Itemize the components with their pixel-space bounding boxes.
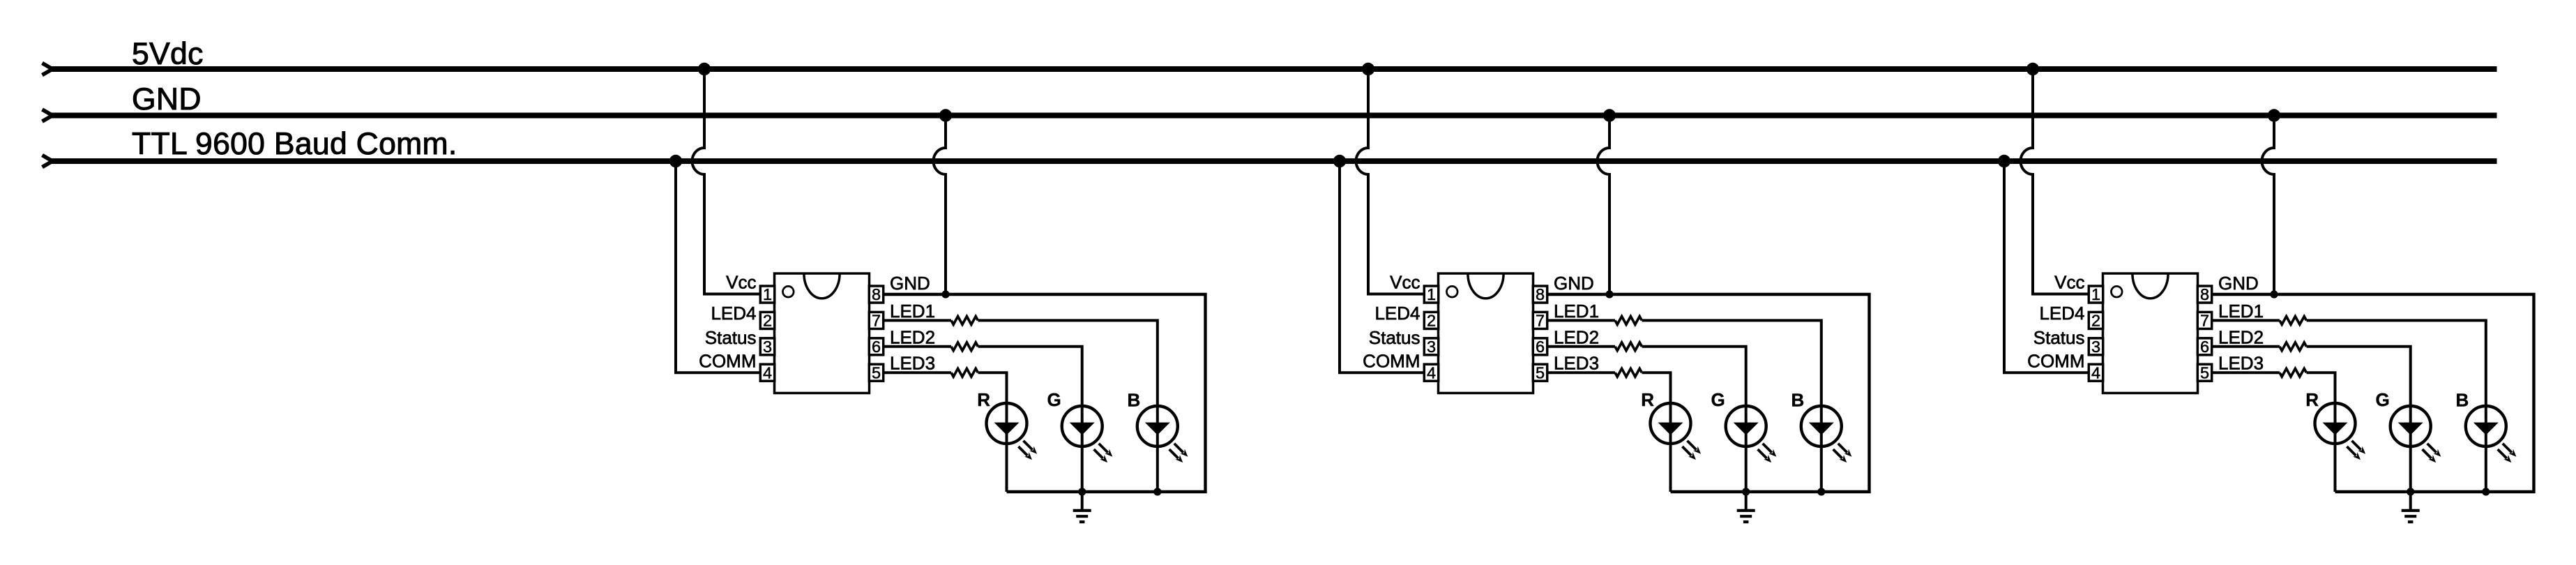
wire pin 5 LED3 (block 3) xyxy=(2212,371,2280,374)
svg-text:B: B xyxy=(1128,390,1141,411)
LED R (block 1) xyxy=(987,403,1038,460)
svg-text:R: R xyxy=(2305,389,2319,410)
svg-text:GND: GND xyxy=(2218,273,2259,294)
junction dot rail/LED B (block 1) xyxy=(1153,488,1161,495)
svg-text:R: R xyxy=(1641,389,1654,410)
bus wire TTL 9600 Baud Comm. xyxy=(51,158,2497,164)
resistor LED1 (block 3) xyxy=(2280,317,2306,325)
ground symbol (block 2) xyxy=(1737,492,1755,522)
wire TTL to COMM pin 4 (block 2) xyxy=(1340,161,1425,372)
svg-text:5: 5 xyxy=(2200,363,2209,382)
svg-text:7: 7 xyxy=(872,312,881,330)
svg-text:6: 6 xyxy=(872,338,881,356)
svg-text:LED1: LED1 xyxy=(890,301,935,322)
pin 2 box (block 3) xyxy=(2089,312,2103,330)
wire pin 8 GND net (block 2) xyxy=(1547,294,1870,492)
LED B (block 1) xyxy=(1137,406,1188,462)
LED R (block 3) xyxy=(2315,403,2366,460)
svg-text:5: 5 xyxy=(872,363,881,382)
IC microcontroller (block 1) body xyxy=(775,273,870,393)
wire 5Vdc to Vcc pin 1 (block 2) xyxy=(1356,69,1425,294)
svg-text:Status: Status xyxy=(705,327,757,348)
pin 4 box (block 1) xyxy=(760,363,774,382)
svg-text:Status: Status xyxy=(1369,327,1420,348)
LED B (block 2) xyxy=(1801,406,1852,462)
svg-text:8: 8 xyxy=(872,285,881,303)
bus wire GND xyxy=(51,113,2497,119)
LED G (block 3) xyxy=(2391,406,2441,462)
wire pin 6 LED2 (block 3) xyxy=(2212,345,2280,348)
pin 2 box (block 2) xyxy=(1424,312,1438,330)
wire resistor to LED G (block 2) xyxy=(1642,347,1746,492)
junction dot rail/LED B (block 2) xyxy=(1817,488,1825,495)
svg-text:1: 1 xyxy=(1427,285,1436,303)
svg-text:4: 4 xyxy=(763,363,772,382)
svg-text:Vcc: Vcc xyxy=(1390,272,1420,293)
resistor LED3 (block 1) xyxy=(951,368,978,377)
svg-text:LED4: LED4 xyxy=(1374,303,1420,324)
resistor LED1 (block 1) xyxy=(951,317,978,325)
pin 8 box (block 1) xyxy=(869,285,883,303)
svg-text:4: 4 xyxy=(2091,363,2100,382)
svg-text:7: 7 xyxy=(1536,312,1545,330)
wire 5Vdc to Vcc pin 1 (block 1) xyxy=(692,69,762,294)
resistor LED2 (block 3) xyxy=(2280,342,2306,351)
wire pin 8 GND net (block 3) xyxy=(2212,294,2534,492)
wire pin 8 GND net (block 1) xyxy=(884,294,1206,492)
IC microcontroller (block 2) body xyxy=(1439,273,1533,393)
svg-text:8: 8 xyxy=(2200,285,2209,303)
wire TTL to COMM pin 4 (block 1) xyxy=(676,161,761,372)
svg-text:3: 3 xyxy=(2091,338,2100,356)
svg-text:Vcc: Vcc xyxy=(726,272,756,293)
svg-text:COMM: COMM xyxy=(699,351,756,372)
pin 4 box (block 2) xyxy=(1424,363,1438,382)
bus arrow GND xyxy=(43,110,53,121)
svg-text:LED1: LED1 xyxy=(1554,301,1599,322)
LED R (block 2) xyxy=(1651,403,1702,460)
junction dot on 5Vdc bus (block 2) xyxy=(1362,63,1374,75)
wire pin 5 LED3 (block 2) xyxy=(1547,371,1615,374)
pin 8 box (block 2) xyxy=(1533,285,1547,303)
svg-text:5: 5 xyxy=(1536,363,1545,382)
pin 2 box (block 1) xyxy=(760,312,774,330)
svg-text:1: 1 xyxy=(763,285,772,303)
ground symbol (block 1) xyxy=(1073,492,1091,522)
svg-text:LED3: LED3 xyxy=(890,353,935,374)
svg-text:COMM: COMM xyxy=(2027,351,2084,372)
svg-text:LED2: LED2 xyxy=(890,327,935,348)
wire TTL to COMM pin 4 (block 3) xyxy=(2004,161,2089,372)
svg-text:B: B xyxy=(2456,390,2469,411)
wire pin 7 LED1 (block 3) xyxy=(2212,319,2280,322)
wire resistor to LED R (block 3) xyxy=(2307,372,2335,492)
svg-text:3: 3 xyxy=(763,338,772,356)
wire pin 7 LED1 (block 1) xyxy=(884,319,951,322)
pin 8 box (block 3) xyxy=(2197,285,2211,303)
svg-text:GND: GND xyxy=(1554,273,1594,294)
svg-text:GND: GND xyxy=(890,273,930,294)
junction dot on TTL bus (block 3) xyxy=(1998,155,2010,167)
wire pin 6 LED2 (block 2) xyxy=(1547,345,1615,348)
wire resistor to LED G (block 3) xyxy=(2307,347,2411,492)
svg-text:6: 6 xyxy=(2200,338,2209,356)
pin 1 box (block 2) xyxy=(1424,285,1438,303)
junction dot on TTL bus (block 1) xyxy=(669,155,682,167)
svg-text:1: 1 xyxy=(2091,285,2100,303)
svg-text:2: 2 xyxy=(1427,312,1436,330)
resistor LED3 (block 3) xyxy=(2280,368,2306,377)
wire resistor to LED G (block 1) xyxy=(978,347,1082,492)
pin 7 box (block 1) xyxy=(869,312,883,330)
svg-text:R: R xyxy=(977,389,990,410)
pin 7 box (block 2) xyxy=(1533,312,1547,330)
svg-text:LED4: LED4 xyxy=(711,303,756,324)
junction dot on TTL bus (block 2) xyxy=(1333,155,1346,167)
svg-text:8: 8 xyxy=(1536,285,1545,303)
junction dot on 5Vdc bus (block 3) xyxy=(2026,63,2039,75)
wire resistor to LED B (block 2) xyxy=(1642,320,1821,492)
svg-text:2: 2 xyxy=(763,312,772,330)
LED B (block 3) xyxy=(2466,406,2517,462)
wire resistor to LED B (block 3) xyxy=(2307,320,2486,492)
resistor LED2 (block 2) xyxy=(1615,342,1642,351)
bus arrow TTL 9600 Baud Comm. xyxy=(43,155,53,167)
IC microcontroller (block 3) body xyxy=(2103,273,2198,393)
svg-text:G: G xyxy=(2375,389,2389,410)
pin 5 box (block 2) xyxy=(1533,363,1547,382)
resistor LED3 (block 2) xyxy=(1615,368,1642,377)
pin 7 box (block 3) xyxy=(2197,312,2211,330)
svg-text:Vcc: Vcc xyxy=(2054,272,2084,293)
junction dot on GND bus (block 3) xyxy=(2268,109,2280,121)
svg-text:4: 4 xyxy=(1427,363,1436,382)
bus arrow 5Vdc xyxy=(43,63,53,75)
svg-text:G: G xyxy=(1711,389,1725,410)
LED G (block 1) xyxy=(1062,406,1113,462)
pin 1 box (block 3) xyxy=(2089,285,2103,303)
svg-text:LED4: LED4 xyxy=(2039,303,2084,324)
pin 6 box (block 1) xyxy=(869,338,883,356)
junction dot pin8/GND-bus wire (block 3) xyxy=(2270,290,2278,298)
junction dot on 5Vdc bus (block 1) xyxy=(698,63,711,75)
svg-text:LED3: LED3 xyxy=(1554,353,1599,374)
svg-text:LED2: LED2 xyxy=(1554,327,1599,348)
pin 1 box (block 1) xyxy=(760,285,774,303)
pin 6 box (block 2) xyxy=(1533,338,1547,356)
wire GND bus to pin 8 net (block 2) xyxy=(1598,116,1610,295)
svg-text:G: G xyxy=(1047,389,1061,410)
junction dot rail/LED G (block 2) xyxy=(1742,488,1750,495)
wire resistor to LED B (block 1) xyxy=(978,320,1158,492)
svg-text:GND: GND xyxy=(132,82,202,116)
wire 5Vdc to Vcc pin 1 (block 3) xyxy=(2021,69,2090,294)
pin 3 box (block 2) xyxy=(1424,338,1438,356)
wire resistor to LED R (block 1) xyxy=(978,372,1007,492)
svg-text:LED2: LED2 xyxy=(2218,327,2264,348)
svg-text:Status: Status xyxy=(2033,327,2085,348)
junction dot rail/LED G (block 1) xyxy=(1078,488,1086,495)
ground symbol (block 3) xyxy=(2402,492,2420,522)
resistor LED2 (block 1) xyxy=(951,342,978,351)
svg-text:6: 6 xyxy=(1536,338,1545,356)
pin 5 box (block 3) xyxy=(2197,363,2211,382)
junction dot rail/LED B (block 3) xyxy=(2482,488,2490,495)
junction dot on GND bus (block 1) xyxy=(939,109,952,121)
wire resistor to LED R (block 2) xyxy=(1642,372,1671,492)
svg-text:2: 2 xyxy=(2091,312,2100,330)
wire pin 6 LED2 (block 1) xyxy=(884,345,951,348)
svg-text:TTL 9600 Baud Comm.: TTL 9600 Baud Comm. xyxy=(132,127,457,161)
wire GND bus to pin 8 net (block 1) xyxy=(934,116,946,295)
junction dot pin8/GND-bus wire (block 2) xyxy=(1605,290,1613,298)
LED G (block 2) xyxy=(1726,406,1777,462)
pin 6 box (block 3) xyxy=(2197,338,2211,356)
svg-text:LED1: LED1 xyxy=(2218,301,2264,322)
svg-text:B: B xyxy=(1791,390,1805,411)
svg-text:5Vdc: 5Vdc xyxy=(132,37,204,71)
junction dot pin8/GND-bus wire (block 1) xyxy=(941,290,949,298)
pin 3 box (block 3) xyxy=(2089,338,2103,356)
junction dot on GND bus (block 2) xyxy=(1603,109,1616,121)
resistor LED1 (block 2) xyxy=(1615,317,1642,325)
svg-text:COMM: COMM xyxy=(1363,351,1420,372)
svg-text:LED3: LED3 xyxy=(2218,353,2264,374)
bus wire 5Vdc xyxy=(51,66,2497,72)
wire pin 5 LED3 (block 1) xyxy=(884,371,951,374)
wire GND bus to pin 8 net (block 3) xyxy=(2262,116,2274,295)
junction dot rail/LED G (block 3) xyxy=(2407,488,2414,495)
pin 4 box (block 3) xyxy=(2089,363,2103,382)
pin 5 box (block 1) xyxy=(869,363,883,382)
wire pin 7 LED1 (block 2) xyxy=(1547,319,1615,322)
svg-text:7: 7 xyxy=(2200,312,2209,330)
pin 3 box (block 1) xyxy=(760,338,774,356)
svg-text:3: 3 xyxy=(1427,338,1436,356)
